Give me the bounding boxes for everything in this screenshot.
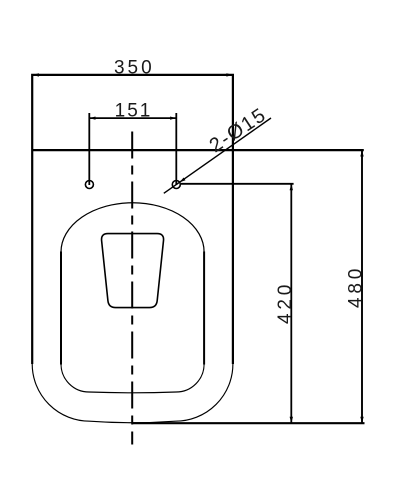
svg-text:420: 420 <box>275 281 296 324</box>
arrow dim151 right <box>170 117 176 120</box>
mounting hole right <box>172 181 180 189</box>
seat opening: left side <box>60 252 62 365</box>
vertical centerline (dash-dot) <box>131 132 133 445</box>
svg-text:480: 480 <box>345 265 366 308</box>
arrow dim480 bottom <box>360 417 363 423</box>
svg-text:151: 151 <box>115 100 153 121</box>
arrow dim350 left <box>33 73 39 76</box>
seat opening: right side <box>203 252 205 365</box>
arrow dim350 right <box>226 73 232 76</box>
dim 151 dimension line <box>89 117 176 119</box>
mounting hole left <box>85 181 93 189</box>
flush recess (inner trapezoid) <box>102 234 164 308</box>
seat outer outline: bottom arcs (thin) <box>32 364 233 423</box>
arrow dim420 top <box>290 184 293 190</box>
arrow dim480 top <box>360 150 363 156</box>
dim 151 extension line left <box>88 113 90 185</box>
bottom extension line <box>132 422 364 424</box>
dim 151 extension line right <box>175 113 177 185</box>
seat outer outline: straight sides and top (thick) <box>32 75 233 364</box>
dim 420 dimension line <box>290 184 292 424</box>
dim 480 dimension line <box>361 150 363 424</box>
leader line for 2-Ø15 <box>164 118 271 193</box>
dim 420 extension line (from right hole) <box>181 183 294 185</box>
seat opening: bottom arcs (thin) <box>61 364 204 393</box>
svg-text:350: 350 <box>114 58 155 79</box>
arrow dim151 left <box>90 117 96 120</box>
arrow leader (at right hole) <box>180 178 186 183</box>
hinge line (object line + 480 extension) <box>32 149 364 151</box>
seat opening: top arc (thin) <box>61 203 204 252</box>
arrow dim420 bottom <box>290 417 293 423</box>
